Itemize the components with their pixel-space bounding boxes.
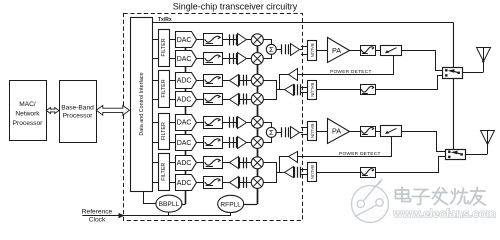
watermark chinese text dian-zi-fa-shao-you <box>396 187 486 205</box>
wire LNA to Rx balun <box>300 169 307 171</box>
svg-text:Σ: Σ <box>269 45 274 54</box>
Rx balun B3 <box>308 81 317 100</box>
wire row 1 <box>152 39 252 41</box>
DAC converter row 6 <box>176 135 197 151</box>
wire Rx mixers junction bracket <box>264 81 277 100</box>
wire interface to BBPLL <box>144 192 156 204</box>
svg-text:RFPLL: RFPLL <box>220 201 241 208</box>
mixer row 2 <box>251 53 263 65</box>
Data and Control Interface box <box>131 18 153 192</box>
Rx RF filter 1 <box>361 85 376 95</box>
wire row 5 <box>152 122 252 124</box>
wire reference clock line <box>82 215 231 217</box>
Tx balun B2 <box>308 122 317 141</box>
FILTER box 3 <box>159 114 170 150</box>
baseband filter icon row 5 <box>204 117 223 129</box>
mixer row 5 <box>251 116 263 128</box>
wire BBPLL to clock line <box>168 212 170 215</box>
Rx LNA amplifier <box>285 167 294 178</box>
wire RFPLL to clock line <box>230 213 232 216</box>
wire mixers to summer <box>264 123 272 128</box>
svg-text:Data and Control Interface: Data and Control Interface <box>139 72 145 135</box>
Rx amplifier row 4 <box>230 94 239 106</box>
power detect buffer amplifier <box>289 69 298 81</box>
MAC/Network Processor box <box>10 81 47 141</box>
svg-text:Processor: Processor <box>63 113 93 120</box>
wire coupler power detect tap <box>298 56 394 75</box>
antenna ANT2 <box>481 131 495 145</box>
ADC converter row 7 <box>176 156 197 171</box>
summer sigma circle <box>266 127 276 137</box>
svg-text:BALUN: BALUN <box>310 83 315 97</box>
svg-text:DAC: DAC <box>177 56 192 63</box>
DAC converter row 2 <box>176 51 197 67</box>
svg-text:Network: Network <box>15 111 40 118</box>
svg-text:MAC/: MAC/ <box>19 101 36 108</box>
double arrow MAC to BaseBand <box>46 108 59 114</box>
DAC converter row 5 <box>176 115 197 131</box>
wire RFPLL LO column to mixers <box>257 34 259 204</box>
antenna switch SW1 <box>443 68 463 79</box>
svg-text:Processor: Processor <box>13 120 43 127</box>
mixer row 8 <box>251 176 263 188</box>
Tx VGA amplifier <box>281 44 283 54</box>
FILTER box 2 <box>159 71 170 108</box>
svg-text:FILTER: FILTER <box>161 122 167 140</box>
svg-text:Reference: Reference <box>82 208 113 215</box>
mixer row 4 <box>251 93 263 105</box>
power detect buffer amplifier <box>289 152 298 163</box>
baseband filter icon row 6 <box>204 137 223 149</box>
FILTER box 4 <box>159 154 170 191</box>
svg-text:BALUN: BALUN <box>310 43 315 57</box>
wire row 3 <box>152 80 252 82</box>
wire LNA to Rx balun <box>300 87 307 89</box>
Tx amplifier row 2 <box>229 53 231 64</box>
power amplifier PA2 <box>328 119 350 144</box>
wire Tx/Rx control line <box>152 22 453 24</box>
svg-text:Clock: Clock <box>89 216 106 223</box>
Tx RF filter 2 <box>361 127 376 137</box>
wire Rx filter to antenna switch <box>376 76 443 90</box>
Tx RF filter 1 <box>361 46 376 56</box>
wire coupler to antenna switch <box>402 51 443 71</box>
baseband filter icon row 7 <box>204 157 223 169</box>
RFPLL oscillator <box>218 195 244 212</box>
double arrow BaseBand to chip interface <box>96 106 129 116</box>
svg-text:ADC: ADC <box>177 180 192 187</box>
Rx amplifier row 8 <box>230 177 239 189</box>
svg-text:BALUN: BALUN <box>310 124 315 138</box>
wire VGA to balun <box>300 132 303 134</box>
wire PA to RF filter <box>350 131 361 133</box>
DAC converter row 1 <box>176 32 197 48</box>
wire PA to RF filter <box>350 50 361 52</box>
svg-text:Σ: Σ <box>269 128 274 137</box>
directional coupler 2 <box>381 126 402 137</box>
wire Rx mixers junction bracket <box>264 163 277 183</box>
wire switch SW2 to ANT2 <box>466 154 488 156</box>
wire balun to PA <box>317 131 328 133</box>
svg-text:Base-Band: Base-Band <box>61 105 94 112</box>
svg-text:Tx/Rx: Tx/Rx <box>158 17 172 23</box>
svg-text:ADC: ADC <box>177 160 192 167</box>
svg-text:BALUN: BALUN <box>310 165 315 179</box>
wire row 4 <box>152 99 252 101</box>
Tx amplifier row 6 <box>229 137 231 148</box>
svg-text:DAC: DAC <box>177 140 192 147</box>
wire balun to PA <box>317 50 328 52</box>
wire summer to Tx VGA <box>276 132 282 134</box>
baseband filter icon row 3 <box>204 75 223 87</box>
FILTER box 1 <box>159 30 170 67</box>
wire filter to coupler <box>376 131 381 133</box>
Tx amplifier row 5 <box>229 117 231 128</box>
svg-text:FILTER: FILTER <box>161 38 167 56</box>
svg-text:POWER DETECT: POWER DETECT <box>330 69 372 75</box>
wire coupler power detect tap <box>298 137 392 157</box>
wire balun to Rx RF filter <box>317 89 361 91</box>
svg-text:PA: PA <box>332 127 341 136</box>
mixer row 3 <box>251 74 263 86</box>
Tx amplifier row 1 <box>229 34 231 45</box>
mixer row 6 <box>251 136 263 148</box>
wire row 8 <box>152 182 252 184</box>
antenna ANT1 <box>477 48 491 62</box>
wire filter to coupler <box>376 50 381 52</box>
svg-text:DAC: DAC <box>177 120 192 127</box>
Rx amplifier row 7 <box>230 157 239 169</box>
Tx balun B1 <box>308 41 317 61</box>
Rx RF filter 2 <box>361 168 376 178</box>
wire switch SW1 to ANT1 <box>463 72 484 74</box>
Tx VGA amplifier <box>281 127 283 137</box>
wire summer to Tx VGA <box>276 49 282 51</box>
mixer row 1 <box>251 34 263 46</box>
Rx balun B4 <box>308 163 317 182</box>
wire power detect to Rx path <box>280 157 289 173</box>
Base-Band Processor box <box>60 81 97 143</box>
wire row 2 <box>152 58 252 60</box>
svg-text:FILTER: FILTER <box>161 163 167 181</box>
wire VGA to balun <box>300 49 303 51</box>
wire BBPLL clock column to converters <box>185 32 187 205</box>
Rx LNA amplifier <box>285 85 294 96</box>
svg-text:Single-chip transceiver circui: Single-chip transceiver circuitry <box>173 2 298 12</box>
power amplifier PA1 <box>328 38 350 63</box>
svg-text:POWER DETECT: POWER DETECT <box>339 151 381 157</box>
ADC converter row 4 <box>176 92 197 107</box>
Rx amplifier row 3 <box>230 75 239 87</box>
directional coupler 1 <box>381 46 402 56</box>
baseband filter icon row 1 <box>204 34 223 46</box>
svg-text:www.elecfans.com: www.elecfans.com <box>393 209 496 221</box>
dashed chip boundary box <box>124 14 303 221</box>
summer sigma circle <box>266 44 276 54</box>
baseband filter icon row 4 <box>204 94 223 105</box>
svg-text:BBPLL: BBPLL <box>159 201 180 208</box>
svg-text:DAC: DAC <box>177 37 192 44</box>
ADC converter row 3 <box>176 73 197 89</box>
svg-text:FILTER: FILTER <box>161 79 167 97</box>
wire mixers to summer <box>264 40 272 45</box>
baseband filter icon row 8 <box>204 177 223 189</box>
watermark logo circle <box>352 179 389 223</box>
svg-text:ADC: ADC <box>177 78 192 85</box>
svg-text:PA: PA <box>332 46 341 55</box>
ADC converter row 8 <box>176 175 197 191</box>
wire coupler to antenna switch <box>402 132 446 152</box>
BBPLL oscillator <box>156 195 182 212</box>
mixer row 7 <box>251 157 263 169</box>
svg-text:ADC: ADC <box>177 96 192 103</box>
wire power detect to Rx path <box>280 75 289 90</box>
wire row 6 <box>152 142 252 144</box>
baseband filter icon row 2 <box>204 53 223 65</box>
wire Rx filter to antenna switch <box>376 157 446 173</box>
antenna switch SW2 <box>446 150 466 160</box>
wire row 7 <box>152 162 252 164</box>
wire balun to Rx RF filter <box>317 172 361 174</box>
